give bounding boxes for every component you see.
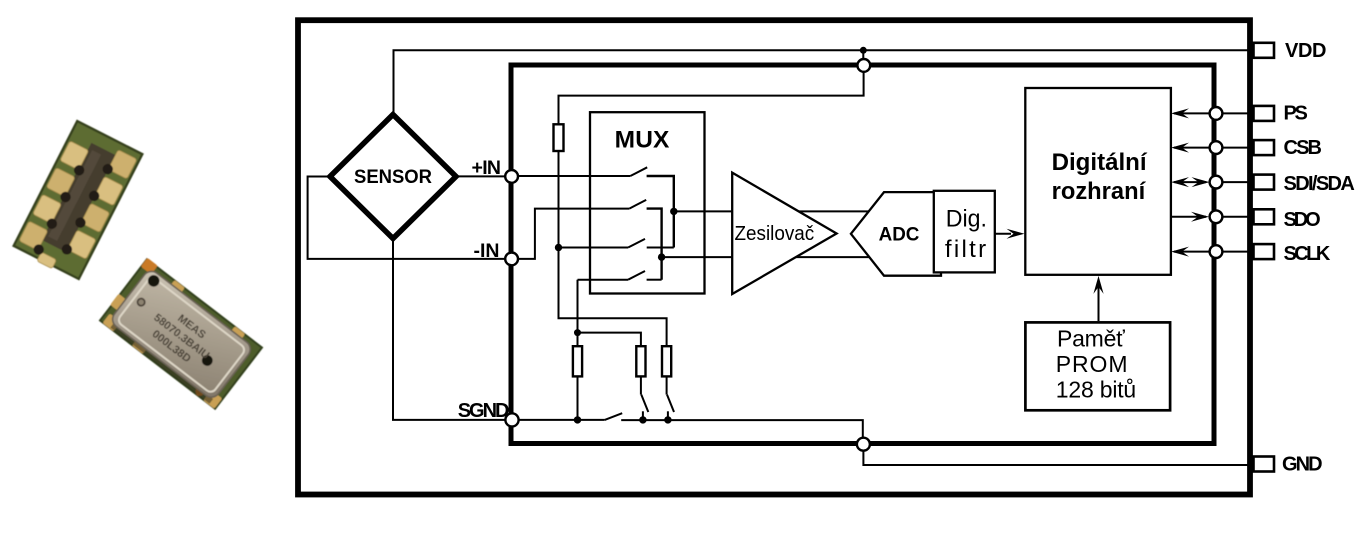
svg-text:Digitální: Digitální xyxy=(1052,149,1148,176)
svg-text:ADC: ADC xyxy=(879,224,920,246)
svg-text:CSB: CSB xyxy=(1284,137,1323,159)
svg-text:SENSOR: SENSOR xyxy=(354,167,432,188)
svg-text:PROM: PROM xyxy=(1056,351,1128,377)
svg-text:VDD: VDD xyxy=(1285,40,1327,62)
svg-text:Zesilovač: Zesilovač xyxy=(735,223,815,245)
svg-text:SDI/SDA: SDI/SDA xyxy=(1284,173,1355,195)
svg-text:Paměť: Paměť xyxy=(1057,326,1125,352)
svg-text:128 bitů: 128 bitů xyxy=(1056,377,1136,403)
svg-text:SGND: SGND xyxy=(458,400,510,422)
svg-text:Dig.: Dig. xyxy=(946,205,987,232)
svg-text:rozhraní: rozhraní xyxy=(1052,178,1147,205)
svg-text:SCLK: SCLK xyxy=(1284,243,1331,265)
svg-text:filtr: filtr xyxy=(945,236,986,263)
svg-text:SDO: SDO xyxy=(1284,209,1321,231)
svg-text:MUX: MUX xyxy=(615,126,670,153)
svg-text:GND: GND xyxy=(1282,453,1323,475)
svg-text:-IN: -IN xyxy=(474,240,500,262)
svg-text:+IN: +IN xyxy=(472,157,502,179)
svg-text:PS: PS xyxy=(1284,103,1308,125)
